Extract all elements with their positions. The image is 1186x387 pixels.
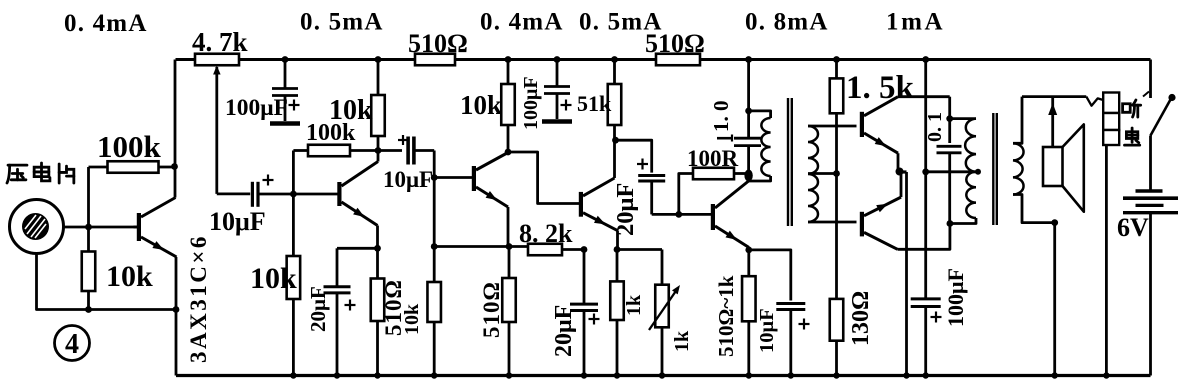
svg-text:10k: 10k (250, 262, 297, 295)
capacitor C4 10uF coupling (378, 149, 402, 152)
transistor Q4 (579, 192, 583, 217)
svg-text:100μF: 100μF (225, 95, 288, 121)
svg-text:510Ω~1k: 510Ω~1k (714, 275, 738, 357)
switch S (power) (1149, 60, 1152, 99)
svg-text:0. 4mA: 0. 4mA (64, 10, 148, 37)
node collector junction Q1 (171, 163, 178, 170)
wire center tap +V feed (924, 60, 927, 299)
transformer T2 primary winding lower (966, 172, 976, 218)
wire T2 center tap (926, 170, 976, 173)
transistor Q1 3AX31C (137, 213, 141, 241)
resistor R13 100R (Q5 bias) (679, 174, 693, 215)
polarity + C6 (589, 318, 600, 320)
piezo transducer B (hatched disc) (22, 213, 49, 240)
wire Q7 emitter to common node (900, 172, 903, 197)
node Q5 collector junction (744, 170, 752, 182)
capacitor C6 20uF bypass (583, 250, 586, 305)
node Q2 emitter junction (374, 245, 381, 252)
node rail junction R15 (833, 56, 840, 63)
svg-text:100R: 100R (687, 146, 739, 171)
node ground rail junctions (290, 372, 1109, 378)
wire jack to ground rail (1105, 145, 1108, 376)
node C6 junction (581, 246, 588, 253)
wire Q3 emitter down (507, 207, 510, 247)
polarity + C2 (263, 179, 274, 181)
svg-text:0. 5mA: 0. 5mA (300, 9, 384, 36)
label 虫 (1131, 128, 1134, 142)
potentiometer RP 4.7k (195, 54, 239, 66)
wire common emitters to ground rail (905, 172, 908, 376)
wire C7 to Q5 base (652, 213, 712, 216)
svg-text:10μF: 10μF (756, 308, 778, 353)
capacitor C5 100uF decoupling (556, 60, 559, 87)
svg-text:510Ω: 510Ω (645, 29, 705, 58)
node rail junction R5 (375, 56, 382, 63)
resistor R11 51k (Q4 collector load) (613, 60, 616, 85)
capacitor C8 10uF bypass (749, 250, 791, 301)
svg-text:20μF: 20μF (306, 286, 330, 332)
transistor Q6 (upper push-pull) (860, 112, 864, 137)
node Q4 emitter junction (614, 246, 621, 253)
svg-text:20μF: 20μF (612, 183, 639, 236)
capacitor C2 10uF coupling (251, 182, 254, 207)
wire emitter Q2 down (376, 226, 379, 279)
wire T1 secondary top to Q6 base (808, 125, 857, 128)
svg-text:10k: 10k (460, 90, 502, 120)
transformer T2 secondary winding (1013, 143, 1024, 194)
wire T1 secondary bottom to Q7 base (808, 221, 857, 224)
wire T2 secondary top lead (1013, 97, 1022, 144)
node center tap junction (833, 170, 840, 177)
wire emitter run to RP2 (617, 248, 662, 251)
node bias junction (431, 243, 438, 250)
wire base net Q2 (258, 193, 338, 196)
svg-text:10k: 10k (106, 260, 153, 293)
node rail junction C5 (554, 56, 561, 63)
svg-text:20μF: 20μF (551, 305, 577, 357)
node T2 primary bottom junction (947, 220, 954, 227)
resistor R15 1.5k (bias upper) (835, 60, 838, 79)
polarity + C4 (398, 139, 408, 141)
wire Q7 collector run (898, 224, 950, 250)
svg-text:10k: 10k (401, 303, 423, 335)
svg-text:0. 1: 0. 1 (924, 112, 946, 142)
polarity + C11 (931, 316, 942, 318)
polarity + C5 (561, 104, 572, 106)
resistor R6 510 ohm (Q2 emitter) (371, 279, 385, 322)
svg-text:10μF: 10μF (383, 167, 433, 192)
wire speaker bottom to ground rail (1053, 223, 1056, 376)
svg-text:51k: 51k (577, 91, 612, 116)
wire bottom ground rail (176, 374, 1151, 377)
wire collector feed Q1 (174, 60, 177, 198)
capacitor C1 100uF decoupling (284, 60, 287, 89)
wire base Q1 (134, 226, 138, 229)
wire bias feedback run (434, 245, 528, 248)
rheostat RP2 1k (adjustable) (655, 285, 669, 328)
node piezo ground junctions (85, 306, 92, 313)
capacitor C11 100uF output decoupling (911, 297, 941, 300)
transformer T1 primary winding (749, 111, 771, 118)
node Q3 collector junction (505, 149, 512, 156)
svg-text:1. 5k: 1. 5k (846, 70, 915, 106)
svg-text:100μF: 100μF (943, 268, 968, 327)
capacitor C3 20uF emitter bypass (337, 247, 378, 250)
polarity + C1 (289, 104, 300, 106)
resistor R7 10k (Q3 collector load) (507, 60, 510, 85)
resistor R14 510R~1k (Q5 emitter) (747, 250, 750, 276)
polarity + C9 (717, 137, 731, 140)
wire jack hop (1086, 97, 1103, 106)
wire wiper to C2 (217, 192, 250, 195)
node rail junction T1 (745, 56, 752, 63)
transistor Q3 (472, 166, 476, 191)
piezo transducer B (outer circle) (10, 200, 64, 254)
wire Q3 collector to Q4 base (508, 152, 580, 204)
speaker LS (1043, 147, 1063, 186)
transformer T1 secondary winding (808, 126, 818, 222)
svg-text:100μF: 100μF (520, 76, 542, 130)
resistor R16 130 ohm (bias lower) (835, 174, 838, 299)
wire Q4 emitter down (616, 231, 619, 250)
wire speaker feed with arrow (1051, 97, 1054, 147)
svg-text:1k: 1k (623, 294, 645, 316)
wire battery to ground rail (1149, 213, 1152, 376)
svg-text:10μF: 10μF (209, 207, 266, 236)
polarity + C8 (799, 323, 810, 325)
resistor R9 510 ohm (Q3 emitter) (508, 247, 511, 279)
capacitor C7 20uF coupling (638, 174, 665, 177)
svg-text:8. 2k: 8. 2k (519, 219, 573, 248)
svg-text:510Ω: 510Ω (479, 281, 504, 338)
node Q3 emitter junction (506, 243, 513, 250)
capacitor C10 0.1uF (948, 97, 951, 143)
svg-text:10k: 10k (329, 95, 373, 126)
wire to T2 primary top (950, 117, 976, 120)
node Q2 base junction (290, 191, 297, 198)
node center tap T2 (922, 168, 929, 175)
polarity + C7 (637, 163, 648, 165)
node rail junction R11 (611, 56, 618, 63)
wire speaker top run (1022, 95, 1086, 98)
node Q4 collector junction (612, 137, 619, 144)
transistor Q5 (711, 204, 715, 230)
label circled 4 figure number (55, 326, 90, 361)
svg-text:100k: 100k (97, 129, 162, 164)
label 听 (1123, 104, 1131, 113)
wire rail to T1 primary (747, 60, 750, 139)
polarity + C3 (345, 304, 356, 306)
wire Q6 emitter to common node (897, 153, 900, 172)
svg-text:130Ω: 130Ω (848, 291, 874, 346)
transformer T2 core (992, 113, 994, 225)
node 100R branch junction (675, 211, 682, 218)
wire T2 primary bottom lead (950, 218, 976, 224)
capacitor C9 1.0uF tone (734, 137, 761, 140)
svg-text:510Ω: 510Ω (408, 29, 468, 58)
node rail junction R7 (505, 56, 512, 63)
resistor R17 510 ohm (rail dropper 1) (415, 54, 455, 66)
resistor R18 510 ohm (rail dropper 2) (656, 54, 700, 66)
svg-text:6V: 6V (1117, 213, 1149, 242)
wire top supply rail (176, 58, 1151, 61)
wire switch to battery (1149, 136, 1152, 190)
battery GB 6V (1136, 189, 1163, 193)
svg-text:3AX31C×6: 3AX31C×6 (186, 234, 211, 363)
resistor R10 8.2k (528, 244, 562, 256)
node rail junction center tap feed (922, 56, 929, 63)
svg-text:1k: 1k (671, 330, 693, 352)
transformer T1 core (787, 98, 789, 226)
node T2 primary top junction (946, 115, 953, 122)
svg-text:1mA: 1mA (886, 9, 945, 36)
jack XS (phone jack) (1103, 93, 1119, 114)
svg-text:1. 0: 1. 0 (709, 101, 733, 133)
label pointer tick (1143, 92, 1149, 97)
node speaker bottom junction (1051, 219, 1058, 226)
node common emitter junction (896, 170, 907, 173)
node rail junction C1 (282, 56, 289, 63)
transistor Q7 (lower push-pull) (860, 212, 864, 237)
wire Q6 collector run (898, 95, 950, 98)
wire T2 secondary bottom lead (1013, 195, 1055, 223)
resistor R8 10k (Q3 bias lower) (433, 247, 436, 283)
svg-text:4: 4 (65, 329, 79, 360)
resistor R4 10k (Q2 bias lower) (292, 194, 295, 256)
resistor R1 100k feedback (89, 166, 108, 169)
resistor R12 1k (Q4 emitter) (616, 250, 619, 282)
wire T1 center tap (808, 172, 837, 175)
resistor R3 100k (Q2 bias upper) (293, 149, 308, 152)
node Q3 base junction (431, 174, 438, 181)
wire C4 to Q3 base (433, 151, 436, 247)
wire piezo ground run (37, 254, 177, 310)
label 压电片 (8, 164, 27, 167)
resistor R5 10k (Q2 collector load) (377, 60, 380, 96)
node T1 primary top junction (745, 108, 752, 115)
svg-text:4. 7k: 4. 7k (192, 27, 248, 57)
transformer T2 primary winding upper (965, 119, 976, 172)
resistor R2 10k (stage1 base) (87, 227, 90, 252)
node Q2 collector junction (375, 147, 382, 154)
node base junction Q1 (85, 224, 92, 231)
svg-text:0. 4mA: 0. 4mA (480, 9, 564, 36)
svg-text:0. 8mA: 0. 8mA (745, 9, 829, 36)
transistor Q2 (337, 182, 341, 206)
wire Q4 collector to C7 (616, 140, 652, 172)
wire emitter Q1 to ground rail (175, 257, 178, 376)
wire piezo to base node (64, 226, 138, 229)
node Q5 emitter junction (745, 247, 752, 254)
